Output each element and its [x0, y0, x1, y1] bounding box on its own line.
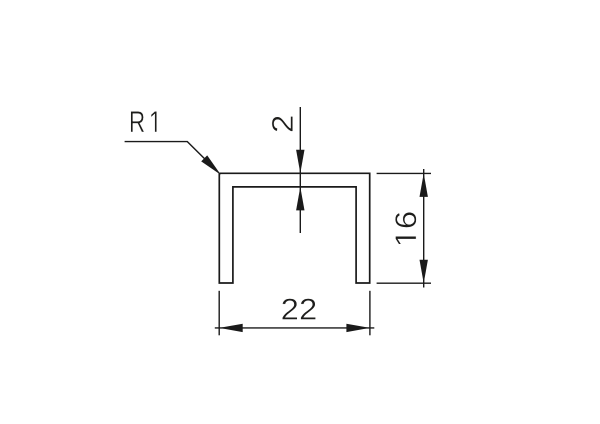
dimension 22: right extension line: [369, 291, 371, 336]
dimension 16: bottom extension line: [377, 282, 431, 284]
dimension 22: right arrow: [346, 324, 370, 332]
dimension 16: top arrow: [420, 173, 428, 197]
leader line R1: [125, 142, 218, 172]
dimension 16: dim line: [423, 169, 425, 288]
dimension 16: top extension line: [377, 172, 431, 174]
dimension 2: value text: [272, 116, 293, 131]
dimension 16: value text: [395, 212, 416, 244]
U-channel profile outline: [219, 173, 369, 283]
dimension 2: dim line upper segment: [299, 107, 301, 173]
dimension 22: left arrow: [219, 324, 243, 332]
dimension 2: arrow pointing up at inner edge: [296, 187, 304, 211]
dimension 16: bottom arrow: [420, 260, 428, 284]
dimension 22: value text: [282, 299, 315, 320]
label R1: digit 1: [151, 111, 157, 132]
dimension 2: arrow pointing down at outer edge: [296, 150, 304, 174]
dimension 22: dim line: [215, 327, 374, 329]
leader arrowhead: [201, 155, 221, 175]
label R1: letter R: [131, 111, 144, 132]
dimension 2: dim line through wall and lower tail: [299, 173, 301, 233]
dimension 22: left extension line: [218, 291, 220, 336]
